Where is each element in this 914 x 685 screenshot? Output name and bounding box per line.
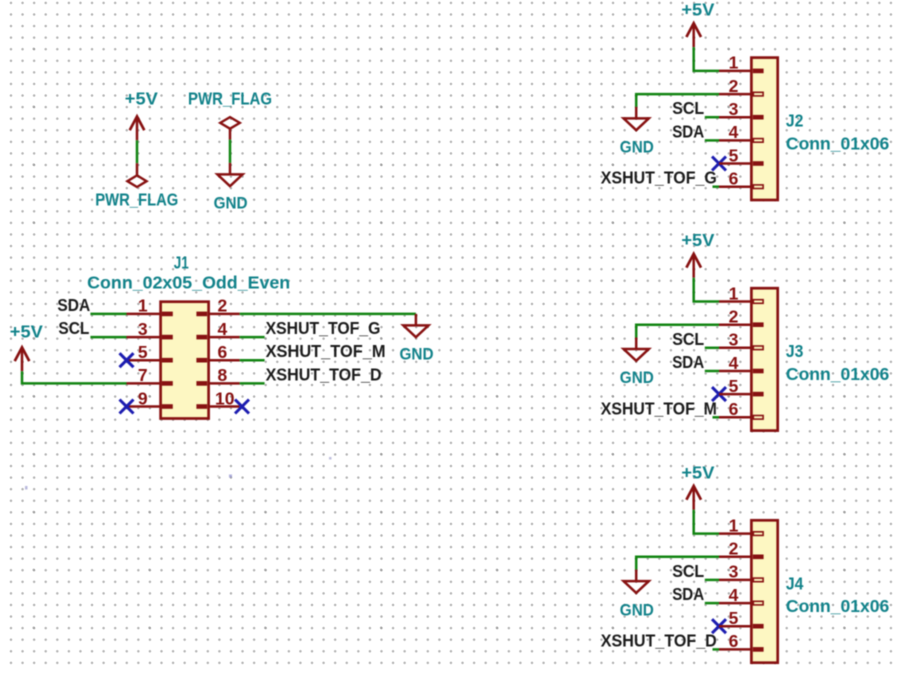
wire +5V to J1 pin 7	[22, 371, 127, 383]
wire SCL to J2 pin 3	[705, 116, 719, 119]
svg-text:4: 4	[729, 353, 739, 373]
J4 pin 3	[719, 562, 763, 582]
artifact specks	[25, 457, 332, 490]
J1 pin 10 (right)	[196, 388, 239, 409]
wire XSHUT_TOF_M to J3 pin 6	[713, 416, 720, 419]
wire SCL to J1 pin 3	[90, 336, 126, 339]
power symbol +5V	[681, 230, 714, 278]
svg-text:XSHUT_TOF_D: XSHUT_TOF_D	[266, 364, 382, 384]
J2 pin 3	[719, 99, 764, 120]
wire J2 pin 2 to GND	[636, 94, 719, 107]
connector J2 body	[751, 58, 777, 200]
svg-text:1: 1	[138, 296, 148, 316]
svg-text:SDA: SDA	[672, 352, 704, 372]
wire XSHUT_TOF_M to J1 pin 6	[240, 359, 265, 362]
svg-text:2: 2	[729, 307, 739, 327]
svg-text:XSHUT_TOF_M: XSHUT_TOF_M	[601, 398, 717, 418]
wire +5V to J4 pin 1	[694, 510, 719, 534]
svg-text:Conn_01x06: Conn_01x06	[786, 596, 890, 616]
J2 pin 2	[719, 76, 763, 96]
svg-text:10: 10	[215, 388, 235, 408]
power symbol GND	[620, 338, 654, 388]
svg-text:9: 9	[138, 388, 148, 408]
power symbol GND	[620, 570, 654, 620]
J4 pin 6	[719, 631, 764, 651]
svg-text:XSHUT_TOF_D: XSHUT_TOF_D	[601, 630, 717, 650]
svg-text:SDA: SDA	[57, 295, 90, 315]
svg-text:Conn_02x05_Odd_Even: Conn_02x05_Odd_Even	[87, 273, 290, 293]
J1 pin 4 (right)	[196, 319, 239, 340]
J1 pin 1 (left)	[127, 296, 173, 317]
svg-text:5: 5	[729, 376, 739, 396]
J2 pin 5	[719, 145, 764, 166]
wire XSHUT_TOF_G to J1 pin 4	[240, 336, 265, 339]
svg-text:1: 1	[729, 283, 739, 303]
svg-text:+5V: +5V	[681, 0, 714, 20]
J3 pin 5	[719, 376, 764, 397]
power symbol GND	[620, 107, 654, 157]
svg-text:GND: GND	[214, 195, 248, 213]
svg-text:PWR_FLAG: PWR_FLAG	[188, 89, 272, 109]
svg-text:3: 3	[729, 330, 739, 350]
J1 pin 3 (left)	[127, 319, 173, 340]
wire XSHUT_TOF_D to J4 pin 6	[713, 648, 720, 651]
J4 pin 2	[719, 539, 764, 560]
svg-text:SCL: SCL	[672, 98, 704, 118]
no-connect J1 pin 10	[235, 400, 249, 414]
svg-text:2: 2	[729, 539, 739, 559]
svg-text:1: 1	[729, 515, 739, 535]
connector J4 body	[751, 520, 777, 662]
no-connect J1 pin 9	[120, 400, 134, 414]
svg-text:+5V: +5V	[10, 322, 43, 342]
svg-text:XSHUT_TOF_M: XSHUT_TOF_M	[266, 341, 386, 361]
svg-text:3: 3	[729, 562, 739, 582]
wire SCL to J4 pin 3	[705, 579, 719, 582]
svg-text:Conn_01x06: Conn_01x06	[786, 133, 890, 153]
no-connect J4 pin 5	[712, 619, 726, 633]
power flag PWR_FLAG	[188, 89, 272, 140]
wire +5V to J3 pin 1	[694, 278, 719, 302]
svg-text:1: 1	[729, 53, 739, 73]
J1 pin 7 (left)	[127, 365, 173, 386]
power symbol +5V	[681, 0, 714, 47]
svg-text:XSHUT_TOF_G: XSHUT_TOF_G	[266, 318, 381, 338]
J2 pin 4	[719, 122, 763, 142]
power symbol +5V	[681, 462, 714, 510]
svg-text:5: 5	[729, 145, 739, 165]
svg-text:XSHUT_TOF_G: XSHUT_TOF_G	[601, 168, 717, 188]
wire SCL to J3 pin 3	[705, 347, 719, 350]
power symbol GND	[400, 314, 434, 364]
svg-text:J4: J4	[786, 573, 804, 593]
svg-text:SDA: SDA	[672, 121, 704, 141]
wire	[136, 140, 139, 163]
svg-text:J3: J3	[786, 341, 804, 361]
wire XSHUT_TOF_D to J1 pin 8	[240, 382, 265, 385]
svg-text:7: 7	[138, 365, 148, 385]
svg-text:SCL: SCL	[58, 318, 89, 338]
J2 pin 6	[719, 169, 763, 189]
no-connect J2 pin 5	[712, 157, 726, 171]
J2 pin 1	[719, 53, 764, 74]
svg-text:Conn_01x06: Conn_01x06	[786, 364, 890, 384]
J4 pin 5	[719, 608, 764, 629]
J1 pin 2 (right)	[196, 296, 239, 317]
J3 pin 6	[719, 399, 763, 419]
power flag PWR_FLAG	[95, 163, 178, 209]
svg-text:2: 2	[729, 76, 739, 96]
J1 pin 8 (right)	[196, 365, 239, 386]
J1 pin 9 (left)	[127, 388, 173, 409]
wire	[229, 140, 232, 163]
svg-text:J2: J2	[786, 111, 804, 131]
svg-text:6: 6	[729, 399, 739, 419]
J1 pin 6 (right)	[196, 342, 239, 363]
svg-text:6: 6	[729, 169, 739, 189]
wire SDA to J1 pin 1	[90, 313, 126, 316]
svg-text:+5V: +5V	[681, 462, 714, 482]
power symbol +5V	[125, 89, 158, 141]
no-connect J1 pin 5	[120, 353, 134, 367]
svg-text:GND: GND	[620, 601, 654, 619]
J3 pin 4	[719, 353, 764, 374]
power symbol GND	[214, 163, 248, 213]
wire +5V to J2 pin 1	[694, 47, 719, 71]
svg-text:4: 4	[729, 585, 739, 605]
J4 pin 4	[719, 585, 763, 605]
svg-text:8: 8	[218, 365, 228, 385]
wire SDA to J3 pin 4	[705, 370, 719, 373]
svg-text:SCL: SCL	[672, 329, 704, 349]
svg-text:4: 4	[729, 122, 739, 142]
svg-text:GND: GND	[620, 369, 654, 387]
svg-text:5: 5	[138, 342, 148, 362]
power symbol +5V	[10, 322, 43, 372]
no-connect J3 pin 5	[712, 387, 726, 401]
svg-text:GND: GND	[400, 346, 434, 364]
wire J1 pin 2 to GND	[240, 313, 416, 316]
svg-text:+5V: +5V	[681, 230, 714, 250]
svg-text:2: 2	[218, 296, 228, 316]
svg-text:GND: GND	[620, 139, 654, 157]
svg-text:SDA: SDA	[672, 584, 704, 604]
wire J4 pin 2 to GND	[636, 557, 719, 570]
J3 pin 3	[719, 330, 763, 350]
svg-text:4: 4	[218, 319, 228, 339]
connector J1 body	[161, 302, 209, 419]
svg-text:+5V: +5V	[125, 89, 158, 109]
svg-text:3: 3	[138, 319, 148, 339]
svg-text:3: 3	[729, 99, 739, 119]
J3 pin 2	[719, 307, 764, 328]
svg-text:5: 5	[729, 608, 739, 628]
svg-text:6: 6	[218, 342, 228, 362]
svg-text:J1: J1	[174, 252, 189, 272]
wire XSHUT_TOF_G to J2 pin 6	[713, 185, 720, 188]
J3 pin 1	[719, 283, 763, 303]
svg-text:6: 6	[729, 631, 739, 651]
J1 pin 5 (left)	[127, 342, 173, 363]
svg-text:PWR_FLAG: PWR_FLAG	[95, 190, 178, 210]
J4 pin 1	[719, 515, 763, 535]
wire SDA to J4 pin 4	[705, 602, 719, 605]
wire J3 pin 2 to GND	[636, 325, 719, 338]
connector J3 body	[751, 288, 777, 430]
wire SDA to J2 pin 4	[705, 139, 719, 142]
svg-text:SCL: SCL	[672, 561, 704, 581]
